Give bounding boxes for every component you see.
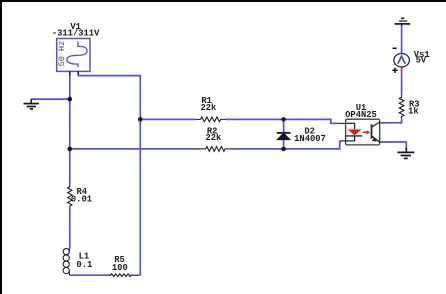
phototransistor base bar — [371, 124, 373, 138]
svg-text:OP4N25: OP4N25 — [345, 110, 377, 120]
svg-text:22k: 22k — [200, 103, 217, 113]
node: junction at R2 row on left vertical — [68, 147, 73, 152]
wire: R3 bottom to U1 collector pin — [385, 119, 401, 122]
LED anode lead — [346, 123, 355, 129]
wire: D2 vertical connecting R1 row to R2 row — [283, 119, 285, 148]
source V1 box — [57, 39, 90, 72]
wire: R2 row from left vertical to U1 cathode pin — [70, 141, 340, 149]
wire: V1 plus terminal jog right and right vertical down to bottom — [78, 75, 140, 276]
plus mark — [392, 68, 397, 73]
node: junction at D2 top — [281, 117, 286, 122]
wire: ground branch to left vertical — [31, 98, 70, 100]
resistor R1 — [195, 117, 225, 122]
emitter lead — [372, 136, 380, 142]
svg-text:50 Hz: 50 Hz — [57, 41, 67, 67]
wire: U1 emitter pin to right ground — [385, 142, 406, 151]
wire: red plus-terminal stub of Vs1 — [401, 67, 403, 72]
node: junction at D2 bottom — [281, 147, 286, 152]
resistor R2 — [201, 147, 230, 152]
wire: R1 row from right vertical to U1 anode pin — [140, 119, 337, 123]
svg-text:0.01: 0.01 — [71, 195, 92, 205]
resistor R3 (vertical) — [399, 94, 404, 119]
LED triangle — [348, 130, 362, 136]
wire: Vs1 top to flipped ground — [401, 25, 403, 54]
node: junction at ground branch — [68, 97, 73, 102]
ground (left) — [24, 99, 39, 109]
optocoupler U1 — [338, 119, 386, 145]
red coupling arrow — [363, 131, 367, 133]
minus mark — [393, 47, 397, 49]
wire: left vertical from V1 minus terminal down to L1 — [69, 75, 71, 184]
svg-text:1N4007: 1N4007 — [294, 134, 326, 144]
V1 terminal stubs — [70, 71, 79, 75]
ground (top right, flipped up) — [395, 18, 411, 25]
ground (right, below U1 emitter) — [398, 148, 415, 158]
resistor R5 — [106, 274, 138, 277]
svg-text:0.1: 0.1 — [76, 260, 92, 270]
wire: bottom row through R5 — [72, 274, 140, 276]
LED cathode bar — [346, 135, 363, 137]
resistor R4 (vertical) — [68, 183, 72, 209]
collector lead — [372, 122, 380, 127]
svg-text:5V: 5V — [416, 56, 427, 66]
inductor L1 — [63, 248, 73, 275]
wire: Vs1 bottom to R3 top (below red stub) — [401, 72, 403, 95]
emitter arrowhead — [372, 138, 377, 142]
LED cathode lead — [340, 136, 355, 141]
svg-text:22k: 22k — [205, 133, 222, 143]
node: junction at R1 row on right vertical — [138, 117, 143, 122]
svg-text:-311/311V: -311/311V — [52, 29, 100, 39]
diode D2 — [277, 133, 291, 140]
svg-text:1k: 1k — [408, 107, 419, 117]
source Vs1 — [392, 48, 409, 73]
U1 pin stubs — [338, 123, 386, 142]
wire: left vertical between R4 and L1 — [69, 210, 71, 249]
svg-text:100: 100 — [112, 263, 128, 273]
